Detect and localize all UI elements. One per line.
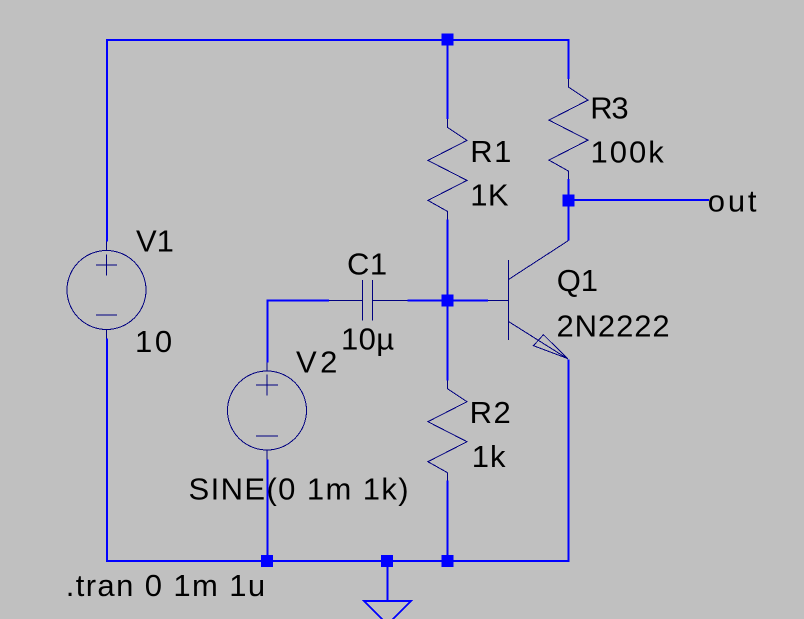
svg-text:R1: R1	[470, 134, 513, 169]
svg-text:2N2222: 2N2222	[557, 309, 671, 344]
svg-text:100k: 100k	[591, 135, 666, 170]
wire V2 minus to bottom ground rail	[267, 459, 269, 562]
junction base node	[441, 294, 453, 306]
svg-text:Q1: Q1	[557, 263, 598, 298]
resistor R3	[549, 79, 588, 179]
transistor Q1	[488, 241, 569, 360]
wire out node down to Q1 collector	[568, 200, 570, 241]
svg-text:1k: 1k	[472, 439, 507, 474]
svg-text:1K: 1K	[470, 178, 509, 213]
wire top rail to R1 top	[447, 39, 449, 119]
svg-text:R3: R3	[590, 90, 627, 125]
svg-text:C1: C1	[347, 247, 388, 282]
svg-text:V1: V1	[136, 224, 174, 259]
wire bottom ground rail	[106, 560, 570, 562]
svg-text:10µ: 10µ	[341, 322, 395, 357]
wire R2 bottom to ground rail	[447, 481, 449, 562]
voltage source V1	[67, 242, 146, 339]
capacitor C1	[329, 280, 408, 321]
wire out node to label out	[569, 199, 709, 201]
wire top rail Vcc	[106, 39, 570, 41]
wire V2 top corner to C1 left	[267, 300, 330, 302]
wire base node to Q1 base	[448, 300, 489, 302]
svg-text:.tran 0 1m 1u: .tran 0 1m 1u	[66, 568, 267, 603]
svg-text:out: out	[708, 184, 760, 219]
wire Q1 emitter to bottom ground rail	[568, 360, 570, 563]
wire left rail lower (V1 minus to ground rail)	[106, 339, 108, 563]
junction top rail / R1 column	[441, 33, 453, 45]
svg-text:SINE(0 1m 1k): SINE(0 1m 1k)	[189, 471, 410, 506]
wire C1 right to base node	[408, 300, 442, 302]
voltage source V2	[228, 363, 307, 460]
junction R2 at ground rail	[442, 555, 454, 567]
svg-text:10: 10	[135, 324, 175, 359]
svg-text:V2: V2	[296, 345, 341, 380]
resistor R2	[428, 381, 467, 481]
ground symbol triangle	[364, 601, 411, 619]
wire R1 bottom through base node to R2 top	[447, 219, 449, 380]
junction ground symbol at ground rail	[381, 555, 393, 567]
resistor R1	[428, 119, 467, 219]
wire top rail to R3 top	[568, 39, 570, 79]
wire R3 bottom to out node	[568, 179, 570, 200]
wire left rail upper (Vcc to V1 plus)	[106, 39, 108, 242]
junction out node	[562, 194, 574, 206]
wire ground stub	[387, 561, 389, 601]
junction V2 at ground rail	[261, 555, 273, 567]
wire corner down to V2 plus	[267, 300, 269, 363]
svg-text:R2: R2	[470, 395, 513, 430]
